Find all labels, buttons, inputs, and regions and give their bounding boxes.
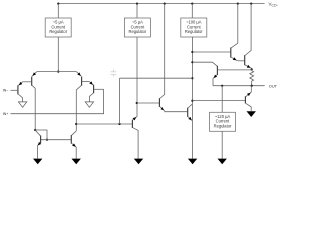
wire T1 base from box3 bus	[192, 51, 230, 53]
ground V- arrow under Q9	[188, 159, 197, 165]
node compensation tap dot	[191, 77, 193, 79]
node T1 base tap dot	[191, 51, 193, 53]
resistor R1 output emitter resistor	[250, 69, 254, 85]
ground V- arrow under Q7	[134, 159, 143, 165]
wire box1 riser bottom to input tail	[57, 37, 59, 72]
transistor T2 (output darlington second NPN)	[245, 4, 252, 70]
ground V- arrow under box4	[218, 159, 227, 165]
capacitor C1 (faint)	[111, 69, 117, 76]
wire mirror base rail	[41, 139, 72, 141]
svg-text:VCC+: VCC+	[269, 2, 279, 8]
current regulator box ~120uA (U4)	[210, 112, 236, 131]
transistor Q8 (emitter follower driver)	[159, 4, 187, 112]
node tail junction dot	[57, 71, 59, 73]
wire V+ top rail	[58, 3, 264, 5]
diode-symbol open arrow to VCC- under Q4	[85, 102, 93, 107]
transistor T1 (output darlington first NPN)	[231, 4, 245, 62]
ground V- arrow under Q5	[33, 159, 42, 165]
ground V- arrow under Q6	[72, 159, 81, 165]
svg-text:Regulator: Regulator	[129, 29, 147, 34]
wire box4 riser bottom	[221, 131, 223, 158]
wire mirror collector-base jog	[35, 130, 47, 140]
wire box2 riser bottom to Q7 collector	[136, 37, 138, 117]
transistor Q7 (second stage input)	[132, 116, 138, 159]
svg-text:OUT: OUT	[269, 84, 278, 89]
wire IN+ input to Q4 base	[11, 89, 104, 113]
node mirror base rail dot	[46, 139, 48, 141]
wire box3 output bus down to V- arrow (Q9 column)	[191, 37, 193, 159]
wire box2 riser top	[136, 4, 138, 18]
node top rail junction dots	[57, 3, 252, 5]
node Q9 collector / T4 base dot	[191, 100, 193, 102]
wire box3 riser top	[191, 4, 193, 18]
node R1 top dot	[251, 68, 253, 70]
svg-text:Regulator: Regulator	[214, 124, 232, 129]
wire OUT line	[213, 85, 265, 87]
ground V- arrow under T4	[247, 111, 256, 117]
transistor Q1 (PNP, inverting input follower)	[11, 82, 23, 102]
node T3 collector tap dot	[191, 61, 193, 63]
transistor Q4 (PNP, non-inverting input follower)	[89, 81, 103, 102]
transistor Q3 (PNP, right tail device)	[76, 72, 89, 131]
node first-stage output dot	[75, 123, 77, 125]
transistor T3 (current limit sensor)	[213, 66, 252, 86]
node OUT dot	[251, 85, 253, 87]
wire Q8 base	[137, 102, 160, 104]
wire box4 riser top	[221, 86, 223, 113]
wire T4 base from box3 bus	[192, 99, 245, 101]
svg-text:Regulator: Regulator	[185, 29, 203, 34]
node Q8 base tap dot	[136, 102, 138, 104]
transistor Q6 (NPN mirror output)	[71, 131, 76, 159]
wire compensation run to box3 bus	[120, 77, 193, 79]
current regulator box ~5uA (U2)	[124, 18, 150, 37]
wire input tail rail	[37, 71, 76, 73]
transistor Q9 (second stage gain)	[188, 104, 193, 121]
transistor T4 (output PNP pull-down)	[245, 86, 251, 112]
wire box1 riser top	[57, 4, 59, 18]
current regulator box ~100uA (U3)	[181, 18, 207, 37]
wire T3 collector from box3 bus	[192, 62, 217, 66]
svg-text:Regulator: Regulator	[49, 29, 67, 34]
svg-text:IN+: IN+	[3, 112, 9, 116]
svg-text:IN−: IN−	[3, 89, 9, 93]
node box4 tap dot	[221, 85, 223, 87]
transistor Q5 (NPN mirror, diode-connected)	[35, 130, 41, 158]
node mirror input dot	[34, 129, 36, 131]
node compensation riser dot	[118, 123, 120, 125]
current regulator box ~5uA (U1)	[45, 18, 71, 37]
wire first-stage output to Q7 base	[76, 123, 132, 125]
wire compensation riser	[119, 78, 121, 124]
transistor Q2 (PNP, left tail device)	[22, 72, 37, 130]
diode-symbol open arrow to VCC- under Q1	[18, 102, 26, 107]
